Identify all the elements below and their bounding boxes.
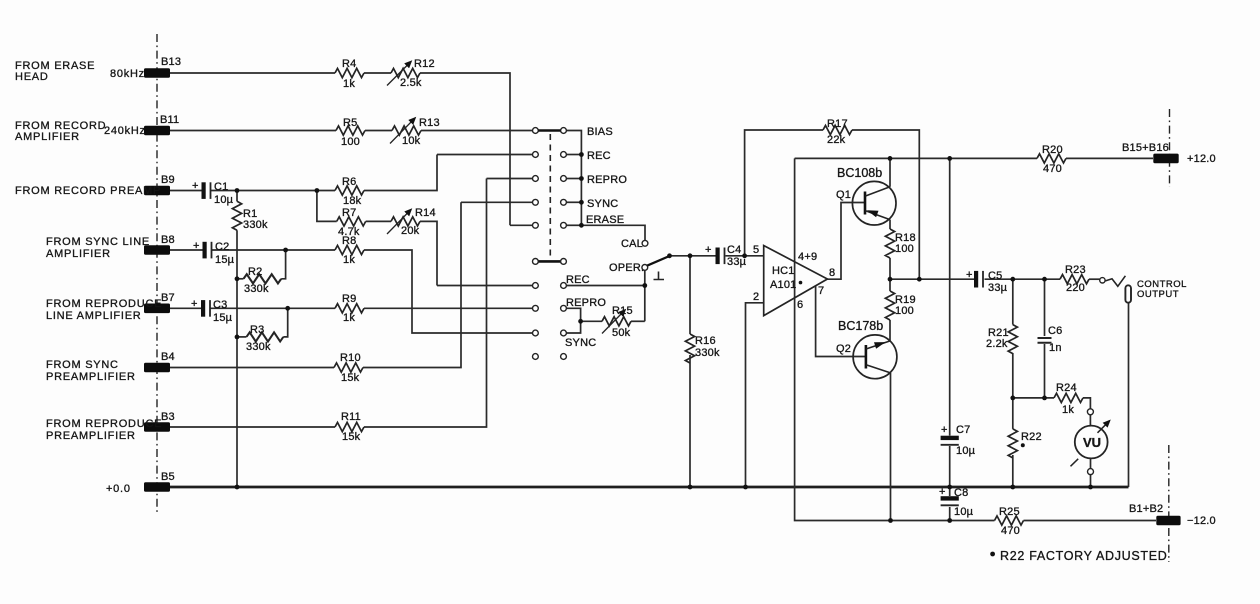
- resistor R1: [232, 201, 241, 230]
- op-amp U1 triangle: [764, 246, 828, 316]
- wire R9 to REPRO-low contact: [364, 307, 533, 309]
- wire R21 top lead: [1012, 279, 1014, 324]
- junction output node R17: [917, 277, 922, 282]
- wire C2 node to R2: [281, 250, 285, 279]
- wire R10 to SYNC riser: [363, 202, 461, 367]
- wire ERASE stub to CAL: [567, 224, 582, 226]
- svg-text:R3: R3: [250, 324, 264, 336]
- resistor R5: [336, 126, 365, 135]
- wire VU top contact to meter: [1089, 415, 1091, 426]
- svg-text:+: +: [941, 424, 948, 436]
- contact control output circle: [1100, 278, 1105, 283]
- wire R1 bottom to bus: [236, 230, 238, 487]
- svg-text:AMPLIFIER: AMPLIFIER: [15, 131, 80, 143]
- junction C8 at -12 rail: [947, 518, 952, 523]
- wire R11 to REPRO riser: [364, 179, 487, 428]
- svg-text:R2: R2: [248, 266, 262, 278]
- wire R19 to Q2 emitter: [889, 320, 891, 341]
- wire R16 bottom to bus: [689, 355, 691, 487]
- transistor Q1 circle: [852, 181, 896, 225]
- svg-text:15k: 15k: [342, 431, 361, 443]
- wire ERASE row to contact: [510, 224, 533, 226]
- svg-text:B13: B13: [161, 56, 181, 68]
- resistor R4: [335, 68, 364, 77]
- svg-text:C2: C2: [215, 241, 229, 253]
- svg-text:REC: REC: [566, 274, 590, 286]
- terminal B9: [144, 186, 170, 196]
- junction C5 to C6: [1042, 277, 1047, 282]
- capacitor C8: [941, 496, 959, 505]
- junction lever to C4 wire: [667, 253, 672, 258]
- terminal B8: [144, 245, 170, 255]
- wire output node to C5: [890, 278, 974, 280]
- switch upper bank right contacts: [561, 128, 567, 229]
- wire B9 to C1: [170, 190, 202, 192]
- wire B3 to R11: [170, 426, 335, 428]
- svg-text:+12.0: +12.0: [1187, 153, 1216, 165]
- svg-text:B4: B4: [161, 351, 175, 363]
- svg-text:330k: 330k: [695, 347, 720, 359]
- potentiometer R15: [602, 317, 631, 326]
- wire C4 to op-amp pin5: [726, 255, 764, 257]
- svg-text:FROM SYNC LINE: FROM SYNC LINE: [46, 236, 150, 248]
- wire REC row to contact: [437, 154, 533, 156]
- capacitor C3: [201, 300, 210, 317]
- wire C7 to bus: [949, 446, 951, 487]
- wire pin8 to Q1 base: [827, 203, 865, 280]
- svg-text:B15+B16: B15+B16: [1122, 142, 1169, 154]
- svg-text:SYNC: SYNC: [587, 198, 618, 210]
- resistor R11: [335, 422, 364, 431]
- svg-text:FROM RECORD PREAMP: FROM RECORD PREAMP: [15, 185, 161, 197]
- resistor R3: [247, 332, 284, 341]
- resistor R10: [334, 363, 363, 372]
- wire REPRO stub: [567, 178, 582, 180]
- svg-text:C3: C3: [213, 299, 227, 311]
- switch mechanical dashed link: [549, 134, 551, 257]
- wire B8 to C2: [170, 249, 203, 251]
- resistor R21: [1008, 325, 1017, 354]
- transistor Q2 emitter stroke: [866, 341, 890, 349]
- terminal B1+B2: [1156, 516, 1180, 526]
- resistor R8: [335, 245, 364, 254]
- wire R16 top lead: [689, 256, 691, 334]
- wire OPER to REC-low to R15 riser: [644, 270, 646, 321]
- terminal B3: [144, 422, 170, 432]
- junction pin2 at bus: [743, 485, 748, 490]
- wire R17 right to output node: [852, 130, 919, 279]
- wire B4 to R10: [170, 367, 334, 369]
- resistor R25: [995, 516, 1024, 525]
- svg-text:B5: B5: [161, 471, 175, 483]
- asterisk dot R22: [1021, 443, 1025, 447]
- junction Q2 collector at -12 rail: [888, 518, 893, 523]
- transistor Q1 collector stroke: [866, 187, 891, 196]
- svg-text:2.5k: 2.5k: [400, 77, 422, 89]
- wire VU bottom contact to bus: [1090, 475, 1092, 487]
- svg-text:+: +: [192, 180, 199, 192]
- mechanical tab symbol: [654, 272, 665, 280]
- wire R12 to ERASE drop: [420, 73, 510, 225]
- wire C3 to R9: [211, 307, 336, 309]
- capacitor C7: [941, 436, 959, 445]
- svg-text:18k: 18k: [343, 195, 362, 207]
- transistor Q1 emitter arrow: [867, 210, 879, 217]
- svg-text:5: 5: [753, 244, 759, 256]
- wire R15 right lead: [631, 320, 645, 322]
- svg-text:PREAMPLIFIER: PREAMPLIFIER: [46, 371, 136, 383]
- svg-text:CAL: CAL: [621, 238, 643, 250]
- svg-text:1k: 1k: [343, 254, 355, 266]
- svg-text:C1: C1: [214, 181, 228, 193]
- wire R21 bottom lead: [1012, 353, 1014, 398]
- svg-text:R7: R7: [342, 207, 356, 219]
- potentiometer R14: [391, 217, 420, 226]
- junction REC-low riser: [642, 283, 647, 288]
- wire lever node to C4: [670, 255, 716, 257]
- wire VU meter to bottom contact: [1090, 458, 1092, 468]
- junction C3 output node: [285, 306, 290, 311]
- wire C2 to R8: [212, 249, 335, 251]
- junction dots switch common rail: [579, 152, 584, 228]
- svg-text:R9: R9: [342, 293, 356, 305]
- wire pin7 to Q2 base: [816, 286, 866, 357]
- junction Q1 collector at +12 rail: [888, 156, 893, 161]
- svg-text:33µ: 33µ: [727, 256, 747, 268]
- VU meter arrow: [1098, 421, 1110, 433]
- wire R25 to B1+B2 rail handled, left part: [1024, 520, 1157, 522]
- svg-text:BC108b: BC108b: [837, 166, 882, 180]
- capacitor C5: [974, 271, 983, 288]
- svg-text:LINE AMPLIFIER: LINE AMPLIFIER: [46, 310, 141, 322]
- svg-text:B3: B3: [161, 411, 175, 423]
- svg-text:C8: C8: [954, 487, 968, 499]
- svg-text:REC: REC: [587, 150, 611, 162]
- svg-text:B7: B7: [161, 292, 175, 304]
- svg-text:R22 FACTORY ADJUSTED: R22 FACTORY ADJUSTED: [1000, 549, 1168, 563]
- resistor R24: [1054, 393, 1083, 402]
- junction REPRO/SYNC to R15: [578, 319, 583, 324]
- junction R16 at bus: [688, 485, 693, 490]
- wire R23 to output circle: [1089, 278, 1100, 280]
- wire C6 top lead: [1044, 279, 1046, 336]
- terminal B5: [144, 482, 170, 492]
- transistor Q1 emitter stroke: [866, 211, 891, 220]
- svg-text:REPRO: REPRO: [566, 297, 606, 309]
- wire C8 to -12 rail: [949, 507, 951, 521]
- svg-text:1k: 1k: [343, 312, 355, 324]
- svg-text:−12.0: −12.0: [1187, 515, 1216, 527]
- svg-text:330k: 330k: [246, 341, 271, 353]
- svg-text:4+9: 4+9: [798, 251, 817, 263]
- VU meter top contact: [1087, 409, 1093, 415]
- svg-text:240kHz: 240kHz: [104, 125, 146, 137]
- terminal B7: [144, 304, 170, 314]
- transistor Q2 base bar: [865, 345, 868, 369]
- svg-text:7: 7: [818, 285, 824, 297]
- resistor R22: [1008, 429, 1017, 458]
- wire R24 to VU top contact: [1083, 398, 1090, 409]
- wire BIAS stub to common rail: [567, 131, 582, 226]
- wire +12 rail: [795, 157, 1037, 159]
- wire SYNC-low stub: [567, 321, 581, 333]
- transistor Q2 circle: [853, 335, 897, 379]
- svg-text:10µ: 10µ: [214, 194, 234, 206]
- VU meter bottom contact: [1088, 469, 1094, 475]
- wire junction to R15: [581, 320, 602, 322]
- svg-text:SYNC: SYNC: [565, 337, 596, 349]
- svg-text:B11: B11: [160, 114, 179, 126]
- potentiometer R12: [391, 68, 420, 77]
- wire R20 to B15+B16: [1066, 157, 1153, 159]
- switch lower wiper bar: [538, 260, 560, 263]
- connector pin CONTROL OUTPUT: [1125, 285, 1131, 302]
- switch lower bank right contacts: [561, 283, 567, 360]
- wire bus to C8: [949, 487, 951, 496]
- wire C1 to R6: [211, 190, 335, 192]
- svg-text:R6: R6: [342, 176, 356, 188]
- wire B13 to R4: [170, 72, 335, 74]
- wire R14 to REC-low drop: [420, 221, 437, 285]
- terminal B11: [144, 126, 170, 136]
- capacitor C1: [202, 182, 211, 199]
- resistor R20: [1037, 154, 1066, 163]
- wire C6 bottom lead: [1044, 344, 1046, 398]
- junction R21/R24 node: [1010, 396, 1015, 401]
- svg-text:OPER.: OPER.: [609, 262, 644, 274]
- svg-text:100: 100: [895, 243, 914, 255]
- wire R17 left riser: [745, 130, 823, 256]
- wire control output pin to bus: [1128, 303, 1130, 488]
- terminal B4: [144, 363, 170, 373]
- svg-text:15µ: 15µ: [213, 312, 233, 324]
- svg-text:R22: R22: [1021, 431, 1042, 443]
- junction R22 at bus: [1010, 485, 1015, 490]
- junction +12 C7 drop: [947, 156, 952, 161]
- svg-text:330k: 330k: [244, 283, 269, 295]
- wire SYNC row to contact: [461, 201, 533, 203]
- svg-text:Q2: Q2: [836, 343, 851, 355]
- switch lever CAL/OPER: [647, 256, 669, 266]
- switch lower bank left contacts: [533, 283, 539, 360]
- VU meter lower tick: [1071, 459, 1079, 467]
- wire REC stub: [567, 154, 582, 156]
- switch lower wiper contacts: [533, 259, 567, 265]
- svg-text:REPRO: REPRO: [587, 174, 627, 186]
- svg-text:50k: 50k: [612, 327, 631, 339]
- svg-text:+: +: [939, 486, 946, 498]
- wire SYNC stub: [567, 201, 582, 203]
- wire R4 to R12: [364, 72, 391, 74]
- svg-text:AMPLIFIER: AMPLIFIER: [46, 248, 111, 260]
- wire R22 top lead: [1012, 398, 1014, 429]
- svg-text:+: +: [193, 240, 200, 252]
- capacitor C6: [1038, 338, 1052, 343]
- resistor R18: [885, 229, 894, 258]
- svg-text:C6: C6: [1048, 325, 1062, 337]
- wire R13 to BIAS contact: [421, 130, 533, 132]
- svg-text:R20: R20: [1042, 144, 1063, 156]
- switch wiper bar BIAS position: [538, 129, 560, 132]
- svg-text:2: 2: [753, 291, 759, 303]
- svg-text:15µ: 15µ: [215, 254, 235, 266]
- svg-text:B8: B8: [161, 234, 175, 246]
- svg-text:FROM SYNC: FROM SYNC: [46, 359, 119, 371]
- svg-text:R14: R14: [415, 207, 436, 219]
- wire R8 to SYNC-low drop: [364, 250, 533, 333]
- wire Q1 collector to +12: [889, 158, 891, 186]
- svg-text:2.2k: 2.2k: [986, 338, 1008, 350]
- potentiometer R13: [392, 126, 421, 135]
- resistor R16: [685, 334, 694, 363]
- wire supply pin4+9 up / pin6 down to -12 rail: [795, 158, 995, 520]
- svg-text:HEAD: HEAD: [15, 71, 49, 83]
- svg-text:10µ: 10µ: [954, 506, 974, 518]
- svg-text:+0.0: +0.0: [106, 483, 131, 495]
- junction R6/R7 split: [315, 188, 320, 193]
- junction C2 output node: [283, 248, 288, 253]
- svg-text:20k: 20k: [401, 225, 420, 237]
- wire R1 top lead: [236, 191, 238, 202]
- svg-text:B9: B9: [161, 174, 175, 186]
- svg-text:B1+B2: B1+B2: [1129, 503, 1163, 515]
- junction R2 at R1: [235, 276, 240, 281]
- svg-text:HC1: HC1: [772, 265, 795, 277]
- wire C3 node to R3: [283, 308, 287, 337]
- svg-text:22k: 22k: [827, 134, 846, 146]
- resistor R2: [244, 274, 282, 283]
- wire R18 to output node: [889, 258, 891, 279]
- svg-text:10µ: 10µ: [956, 445, 976, 457]
- svg-text:C4: C4: [727, 244, 741, 256]
- resistor R7: [337, 217, 366, 226]
- junction output node R18/R19: [888, 277, 893, 282]
- board edge dash-dot line left: [156, 34, 158, 515]
- junction C5 to R21: [1010, 277, 1015, 282]
- svg-text:80kHz: 80kHz: [110, 68, 145, 80]
- transistor Q2 collector stroke: [866, 365, 890, 373]
- svg-text:R4: R4: [342, 58, 356, 70]
- svg-text:PREAMPLIFIER: PREAMPLIFIER: [46, 430, 136, 442]
- svg-text:100: 100: [895, 305, 914, 317]
- svg-text:BIAS: BIAS: [587, 126, 613, 138]
- svg-text:R17: R17: [827, 118, 848, 130]
- wire 0V bus: [170, 486, 1129, 489]
- svg-text:BC178b: BC178b: [838, 319, 883, 333]
- junction C7 at bus: [947, 485, 952, 490]
- VU meter circle: [1075, 426, 1108, 459]
- wire B11 to R5: [170, 130, 336, 132]
- junction R1 at bus: [235, 485, 240, 490]
- wire +12 drop to C7: [949, 158, 951, 435]
- junction C6/R24 node: [1042, 396, 1047, 401]
- wire REC-low row to contact: [437, 285, 533, 287]
- svg-text:470: 470: [1001, 525, 1020, 537]
- wire B7 to C3: [170, 307, 201, 309]
- transistor Q2 emitter arrow: [874, 342, 886, 349]
- svg-text:R12: R12: [414, 58, 435, 70]
- wire REC-low right stub to OPER/R15 riser: [567, 285, 645, 287]
- svg-text:8: 8: [829, 267, 835, 279]
- svg-text:A101: A101: [770, 279, 797, 291]
- terminal B13: [144, 68, 170, 78]
- svg-text:OUTPUT: OUTPUT: [1137, 289, 1179, 300]
- flexible lead squiggle: [1105, 276, 1125, 287]
- svg-text:R15: R15: [612, 305, 633, 317]
- resistor R23: [1060, 275, 1089, 284]
- svg-text:6: 6: [797, 299, 803, 311]
- svg-text:R16: R16: [695, 335, 716, 347]
- svg-text:+: +: [966, 269, 973, 281]
- svg-text:33µ: 33µ: [988, 282, 1008, 294]
- svg-text:330k: 330k: [243, 219, 268, 231]
- svg-text:ERASE: ERASE: [586, 214, 624, 226]
- asterisk dot A101: [799, 281, 803, 285]
- svg-text:15k: 15k: [341, 372, 360, 384]
- resistor R6: [335, 186, 364, 195]
- junction C4/pin5 node: [742, 253, 747, 258]
- svg-text:R11: R11: [341, 411, 361, 423]
- contact OPER: [642, 265, 648, 271]
- svg-text:R10: R10: [340, 352, 361, 364]
- junction R16 tap: [688, 253, 693, 258]
- svg-text:1k: 1k: [1062, 404, 1074, 416]
- wire REPRO row to contact: [487, 178, 533, 180]
- wire output node to R19: [889, 279, 891, 291]
- svg-text:VU: VU: [1083, 435, 1101, 450]
- wire common to CAL contact: [581, 225, 645, 240]
- resistor R19: [885, 291, 894, 320]
- wire R2 to R1 line: [237, 278, 244, 280]
- board edge dash-dot line top right: [1169, 109, 1171, 187]
- svg-text:R13: R13: [419, 117, 440, 129]
- wire R5 to R13: [365, 130, 392, 132]
- svg-text:Q1: Q1: [836, 189, 851, 201]
- wire REPRO-low stub: [567, 308, 581, 321]
- svg-text:100: 100: [341, 136, 360, 148]
- switch upper bank left contacts: [533, 128, 539, 229]
- wire R3 to R1 line: [237, 336, 247, 338]
- svg-text:FROM REPRODUCE: FROM REPRODUCE: [46, 298, 162, 310]
- svg-text:1k: 1k: [343, 78, 355, 90]
- capacitor C2: [203, 242, 212, 259]
- junction VU at bus: [1088, 485, 1093, 490]
- svg-text:R24: R24: [1056, 382, 1077, 394]
- wire pin2 to bus: [746, 303, 764, 487]
- junction R3 at R1: [235, 335, 240, 340]
- svg-text:R5: R5: [343, 117, 357, 129]
- svg-text:C5: C5: [988, 270, 1002, 282]
- junction R1 at B9 node: [235, 188, 240, 193]
- wire R7 branch drop: [317, 191, 337, 222]
- svg-text:+: +: [705, 244, 712, 256]
- terminal B15+B16: [1153, 154, 1178, 164]
- wire Q2 collector to -12 rail: [890, 373, 892, 521]
- resistor R9: [335, 304, 364, 313]
- svg-text:220: 220: [1066, 282, 1085, 294]
- capacitor C4: [716, 248, 725, 265]
- wire C5 to R23: [985, 278, 1061, 280]
- resistor R17: [823, 125, 852, 134]
- transistor Q1 base bar: [864, 192, 867, 215]
- svg-text:C7: C7: [956, 424, 970, 436]
- wire R22 bottom to bus: [1012, 455, 1014, 487]
- svg-text:R25: R25: [999, 506, 1020, 518]
- svg-text:1n: 1n: [1049, 342, 1062, 354]
- board edge dash-dot line bottom right: [1168, 445, 1170, 562]
- svg-text:FROM REPRODUCE: FROM REPRODUCE: [46, 418, 162, 430]
- wire Q1 emitter to R18: [889, 220, 891, 229]
